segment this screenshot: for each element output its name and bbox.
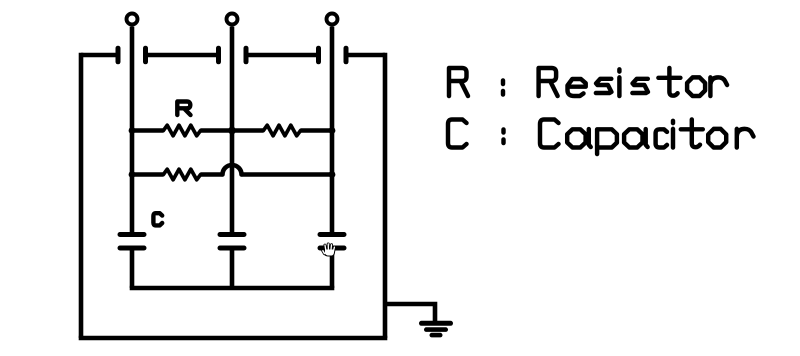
- wire row2 left: [132, 172, 163, 177]
- legend text: R : Resistor: [449, 68, 468, 96]
- wire hop over T2: [223, 165, 242, 175]
- wire row1 middle: [201, 128, 264, 133]
- node row1 middle: [228, 127, 236, 135]
- hand cursor: [323, 244, 336, 257]
- wire C2 bottom: [230, 248, 235, 288]
- resistor R1: [163, 125, 200, 136]
- rail break plate left of T3: [316, 48, 321, 62]
- node row1 right: [329, 127, 336, 134]
- resistor R3: [163, 169, 200, 180]
- label C: [153, 213, 162, 225]
- wire top rail segment 1: [81, 53, 118, 58]
- wire row1 left: [132, 128, 163, 133]
- terminal T1: [127, 14, 138, 25]
- wire C3 bottom: [330, 248, 335, 288]
- wire row1 right: [301, 128, 332, 133]
- rail break plate right of T2: [244, 48, 249, 62]
- terminal T3: [327, 14, 338, 25]
- label R: [177, 102, 190, 116]
- rail break plate left of T1: [116, 48, 121, 62]
- wire C1 bottom: [130, 248, 135, 288]
- legend text: C : Capacitor: [448, 120, 467, 148]
- rail break plate right of T1: [143, 48, 148, 62]
- shield box bottom side: [79, 336, 388, 341]
- node row2 left: [129, 171, 136, 178]
- shield box left side: [79, 53, 84, 338]
- wire T2 vertical: [230, 27, 235, 235]
- rail break plate right of T3: [344, 48, 349, 62]
- wire row2 right: [242, 172, 333, 177]
- shield box right side: [383, 53, 388, 338]
- wire T3 vertical: [330, 27, 335, 235]
- wire top rail segment 3: [246, 53, 319, 58]
- capacitor C1: [120, 232, 144, 237]
- wire row2 middle: [201, 172, 223, 177]
- wire top rail segment 2: [146, 53, 219, 58]
- capacitor C3: [320, 232, 344, 237]
- capacitor C2: [220, 232, 244, 237]
- ground: [422, 321, 451, 326]
- resistor R2: [263, 125, 300, 136]
- node row1 left: [129, 127, 136, 134]
- wire bottom rail: [130, 286, 335, 291]
- wire T1 vertical: [130, 27, 135, 235]
- wire shield to ground: [385, 304, 435, 321]
- node row2 right: [329, 171, 336, 178]
- terminal T2: [227, 14, 238, 25]
- wire top rail segment 4: [346, 53, 385, 58]
- rail break plate left of T2: [216, 48, 221, 62]
